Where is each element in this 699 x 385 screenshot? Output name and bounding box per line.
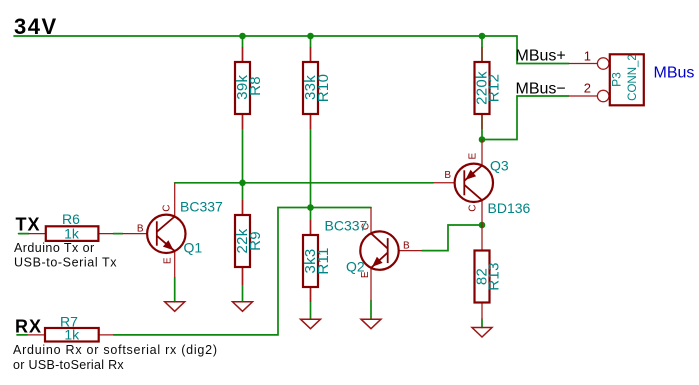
- connector P3 pin 2 circle: [597, 90, 609, 102]
- transistor Q3 pin name C: [467, 205, 478, 212]
- resistor R12 ref: [486, 74, 503, 102]
- svg-text:TX: TX: [16, 215, 41, 235]
- transistor Q2 pin name E: [360, 271, 371, 278]
- wire TX row: [19, 233, 123, 235]
- svg-text:R13: R13: [486, 262, 503, 290]
- resistor R7 pins: [27, 334, 114, 336]
- resistor R8 value 39k: [234, 74, 251, 99]
- resistor R7: [45, 328, 99, 342]
- ground under R9: [233, 302, 253, 312]
- svg-text:C: C: [161, 204, 172, 211]
- transistor Q3 pin name E: [467, 153, 478, 160]
- svg-text:Arduino Rx or softserial rx (d: Arduino Rx or softserial rx (dig2): [13, 343, 218, 357]
- wire column R8/R9: [242, 36, 244, 302]
- resistor R6 pins: [29, 233, 114, 235]
- svg-text:R12: R12: [486, 74, 503, 102]
- junction at rail x=242.5: [239, 33, 246, 40]
- transistor Q3 pin name B: [444, 170, 451, 181]
- connector P3 ref: [610, 72, 624, 87]
- resistor R11: [303, 235, 318, 287]
- transistor Q2 ref: [346, 259, 365, 275]
- svg-text:USB-to-Serial Tx: USB-to-Serial Tx: [14, 256, 117, 270]
- transistor Q2 base pin: [388, 250, 422, 252]
- label TX: [16, 215, 41, 235]
- resistor R9 ref: [247, 231, 264, 251]
- svg-text:RX: RX: [15, 317, 42, 337]
- svg-text:Q3: Q3: [490, 158, 509, 174]
- svg-text:1: 1: [584, 49, 591, 64]
- svg-text:B: B: [137, 224, 144, 235]
- transistor Q1 pin name C: [161, 204, 172, 211]
- transistor Q1 ref: [184, 239, 203, 255]
- svg-text:E: E: [162, 257, 173, 264]
- wire Q1 emitter to ground: [174, 278, 176, 302]
- resistor R12 pins: [481, 47, 483, 129]
- transistor Q2 collector pin: [370, 208, 372, 234]
- resistor R13 pins: [481, 225, 483, 319]
- svg-text:MBus−: MBus−: [516, 81, 566, 98]
- svg-text:R9: R9: [247, 231, 264, 251]
- connector P3 pin 2 number: [584, 81, 591, 96]
- svg-text:Q1: Q1: [184, 239, 203, 255]
- resistor R13: [475, 251, 490, 303]
- resistor R10 ref: [315, 74, 332, 102]
- resistor R6: [46, 226, 99, 241]
- resistor R10 value 33k: [302, 75, 319, 100]
- transistor Q2 pin name B: [403, 241, 410, 252]
- resistor R6 ref: [62, 211, 80, 227]
- resistor R11 ref: [315, 247, 332, 274]
- wire MBus- net from R12 bottom node: [482, 96, 569, 140]
- resistor R8 ref: [247, 76, 264, 96]
- svg-text:P3: P3: [610, 72, 624, 87]
- connector P3 pin 2 line: [569, 95, 598, 97]
- transistor Q2 emitter pin: [370, 268, 372, 301]
- svg-text:Q2: Q2: [346, 259, 365, 275]
- svg-text:MBus+: MBus+: [516, 48, 566, 65]
- junction at rail x=482: [479, 33, 486, 40]
- svg-text:MBus: MBus: [654, 65, 695, 82]
- resistor R11 pins: [310, 220, 312, 302]
- ground under Q2: [361, 319, 381, 329]
- wire RX row to riser: [17, 208, 371, 335]
- svg-text:B: B: [444, 170, 451, 181]
- svg-text:B: B: [403, 241, 410, 252]
- resistor R8 pins: [242, 47, 244, 129]
- resistor R13 ref: [486, 262, 503, 290]
- resistor R7 ref: [60, 314, 78, 330]
- svg-text:R10: R10: [315, 74, 332, 102]
- transistor Q1 BC337: [147, 215, 185, 253]
- transistor Q3 collector pin: [481, 200, 483, 225]
- resistor R6 value 1k: [64, 226, 80, 242]
- resistor R12 value 220k: [473, 71, 490, 105]
- ground under R11: [301, 319, 321, 329]
- transistor Q1 value BC337: [180, 199, 223, 215]
- svg-text:Arduino Tx or: Arduino Tx or: [14, 241, 95, 255]
- svg-text:1k: 1k: [64, 226, 80, 242]
- resistor R12: [475, 62, 490, 114]
- resistor R13 value 82: [473, 268, 490, 285]
- wire 34V top rail: [14, 35, 517, 37]
- ground under Q1: [165, 302, 185, 312]
- resistor R8: [235, 62, 250, 114]
- junction R8/R9 node: [239, 180, 246, 187]
- junction R10/R11 node: [307, 204, 314, 211]
- svg-text:CONN_2: CONN_2: [627, 54, 639, 101]
- wire Q2 base to Q3 collector node: [422, 225, 482, 251]
- resistor R10: [303, 62, 318, 114]
- transistor Q3 base pin: [433, 182, 464, 184]
- label RX: [15, 317, 42, 337]
- transistor Q3 emitter pin: [481, 140, 483, 166]
- svg-text:R8: R8: [247, 76, 264, 96]
- svg-text:R11: R11: [315, 247, 332, 274]
- connector P3 pin 1 line: [569, 63, 598, 65]
- resistor R11 value 3k3: [302, 248, 319, 273]
- resistor R7 value 1k: [64, 327, 80, 343]
- wire column R13 to ground: [481, 319, 483, 328]
- resistor R9 value 22k: [234, 228, 251, 253]
- connector P3 pin 1 circle: [597, 58, 609, 70]
- wire Q1 collector to Q3 base: [175, 182, 433, 184]
- svg-text:BC337: BC337: [180, 199, 223, 215]
- connector P3 value CONN_2: [627, 54, 639, 101]
- wire column R10/R11: [310, 36, 312, 319]
- connector P3 body: [610, 54, 644, 105]
- connector P3 pin 1 number: [584, 49, 591, 64]
- ground under R13: [472, 328, 492, 338]
- resistor R9: [235, 215, 250, 267]
- transistor Q2 value BC337: [325, 218, 368, 234]
- wire MBus+ elbow from rail: [517, 36, 569, 64]
- label MBus (blue): [654, 65, 695, 82]
- transistor Q3 value BD136: [488, 200, 531, 216]
- svg-text:2: 2: [584, 81, 591, 96]
- transistor Q3 ref: [490, 158, 509, 174]
- note Arduino Rx line 2: [13, 358, 124, 372]
- transistor Q3 BD136: [455, 164, 493, 202]
- transistor Q1 collector pin: [174, 183, 176, 217]
- svg-text:BC337: BC337: [325, 218, 368, 234]
- resistor R10 pins: [310, 47, 312, 129]
- note Arduino Rx line 1: [13, 343, 218, 357]
- transistor Q2 pin name C: [360, 223, 371, 230]
- note Arduino Tx line 2: [14, 256, 117, 270]
- label MBus+: [516, 48, 566, 65]
- svg-text:1k: 1k: [64, 327, 80, 343]
- svg-text:R6: R6: [62, 211, 80, 227]
- transistor Q1 pin name B: [137, 224, 144, 235]
- junction at rail x=310.5: [307, 33, 314, 40]
- note Arduino Tx line 1: [14, 241, 95, 255]
- transistor Q1 emitter pin: [174, 251, 176, 277]
- wire Q2 emitter to ground: [370, 301, 372, 320]
- power label 34V: [14, 14, 58, 39]
- transistor Q1 pin name E: [162, 257, 173, 264]
- transistor Q2 BC337: [360, 231, 398, 269]
- junction R12 bottom / Q3 emitter: [479, 136, 486, 143]
- label MBus-: [516, 81, 566, 98]
- wire column R12 upper: [481, 36, 483, 140]
- svg-text:BD136: BD136: [488, 200, 531, 216]
- svg-text:E: E: [467, 153, 478, 160]
- transistor Q1 base pin: [122, 233, 156, 235]
- junction Q3 collector / R13: [479, 222, 486, 229]
- resistor R9 pins: [242, 200, 244, 285]
- svg-text:or USB-toSerial Rx: or USB-toSerial Rx: [13, 358, 124, 372]
- svg-text:C: C: [467, 205, 478, 212]
